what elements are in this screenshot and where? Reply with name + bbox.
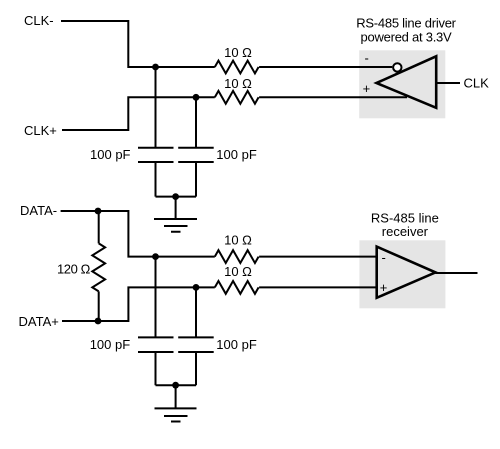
svg-text:10 Ω: 10 Ω (224, 45, 252, 60)
svg-text:DATA-: DATA- (20, 203, 57, 218)
svg-text:10 Ω: 10 Ω (224, 76, 252, 91)
svg-text:receiver: receiver (382, 224, 429, 239)
svg-text:10 Ω: 10 Ω (224, 233, 252, 248)
svg-text:-: - (382, 250, 386, 265)
svg-text:RS-485 line driver: RS-485 line driver (356, 15, 456, 30)
svg-text:powered at 3.3V: powered at 3.3V (361, 29, 453, 44)
svg-text:100 pF: 100 pF (216, 147, 257, 162)
svg-text:100 pF: 100 pF (90, 147, 131, 162)
svg-text:CLK: CLK (464, 75, 490, 90)
svg-text:DATA+: DATA+ (19, 314, 59, 329)
svg-text:+: + (363, 81, 371, 96)
svg-text:-: - (365, 51, 369, 66)
svg-text:120 Ω: 120 Ω (57, 262, 91, 277)
svg-text:100 pF: 100 pF (216, 337, 257, 352)
svg-text:CLK+: CLK+ (24, 123, 57, 138)
svg-text:+: + (380, 280, 388, 295)
svg-text:CLK-: CLK- (24, 13, 54, 28)
svg-text:10 Ω: 10 Ω (224, 264, 252, 279)
svg-text:100 pF: 100 pF (90, 337, 131, 352)
